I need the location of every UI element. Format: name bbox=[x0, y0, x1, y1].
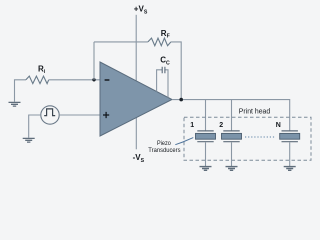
+VS supply wire bbox=[135, 15, 137, 81]
output node bbox=[179, 98, 183, 102]
ground (source, bottom-left) bbox=[23, 138, 35, 142]
wire pulse source to ground2 bbox=[29, 115, 41, 138]
ground transducer 2 bbox=[226, 167, 238, 171]
resistor Ri bbox=[26, 76, 49, 84]
piezo transducer 2 bbox=[222, 131, 242, 166]
output rail wire bbox=[172, 100, 290, 131]
capacitor CC bbox=[157, 70, 168, 98]
ground transducer 1 bbox=[200, 167, 212, 171]
piezo transducer N bbox=[280, 131, 300, 166]
op-amp U1 bbox=[100, 62, 172, 136]
svg-text:Transducers: Transducers bbox=[148, 147, 181, 154]
wire stub transducer 2 bbox=[231, 100, 233, 131]
svg-text:1: 1 bbox=[190, 122, 194, 129]
wire Ri to inverting input bbox=[49, 79, 100, 81]
ellipsis dotted line bbox=[245, 136, 276, 138]
minus sign bbox=[105, 79, 110, 81]
wire RF to output node bbox=[171, 42, 181, 100]
callout line bbox=[175, 138, 193, 145]
-VS supply wire bbox=[135, 118, 137, 150]
resistor RF bbox=[148, 38, 171, 46]
wire stub transducer 1 bbox=[205, 100, 207, 131]
svg-text:2: 2 bbox=[219, 122, 223, 129]
svg-text:N: N bbox=[276, 122, 281, 129]
wire feedback top bbox=[94, 41, 148, 43]
wire feedback riser bbox=[93, 42, 95, 80]
plus sign bbox=[103, 112, 109, 118]
pulse source V1 bbox=[41, 106, 59, 124]
svg-text:Print head: Print head bbox=[239, 106, 270, 115]
ground transducer N bbox=[284, 167, 296, 171]
print head dashed box bbox=[184, 117, 311, 160]
wire pulse source to non-inverting input bbox=[59, 114, 100, 116]
node (inverting input junction) bbox=[92, 78, 95, 81]
ground (input, left) bbox=[9, 102, 21, 106]
wire ground1 to Ri bbox=[15, 80, 27, 102]
piezo transducer 1 bbox=[196, 131, 216, 166]
